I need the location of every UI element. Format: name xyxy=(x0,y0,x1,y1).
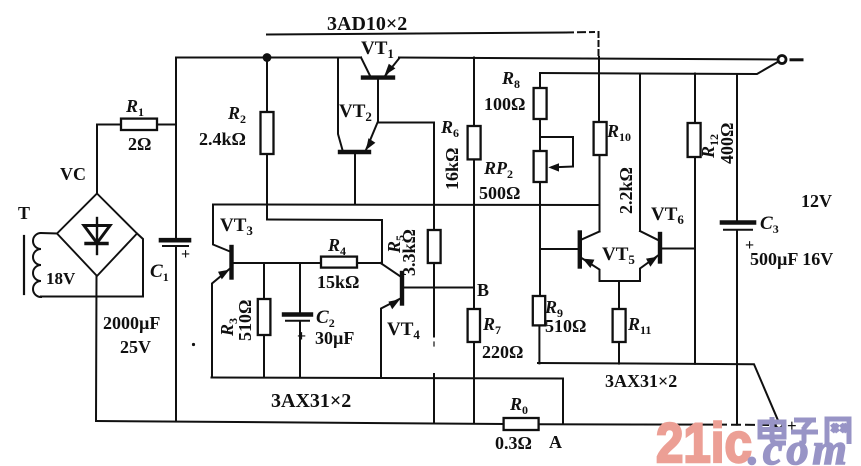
label C2 value xyxy=(297,307,354,348)
svg-text:500µF 16V: 500µF 16V xyxy=(750,249,833,269)
resistor R2 xyxy=(261,112,274,154)
svg-text:30µF: 30µF xyxy=(315,328,354,348)
label R1 value xyxy=(125,96,151,154)
transistor VT6 xyxy=(640,74,695,282)
svg-text:21ic: 21ic xyxy=(656,412,752,466)
resistor R11 xyxy=(613,309,626,342)
wire rail2 right of R0 with dashed end xyxy=(539,423,773,426)
svg-text:15kΩ: 15kΩ xyxy=(317,272,359,292)
potentiometer RP2 with wiper xyxy=(534,137,573,182)
resistor R1 xyxy=(121,119,176,130)
rectifier bridge VC (diamond) xyxy=(57,194,137,277)
resistor R11 column xyxy=(618,281,620,364)
wire rail A (unregulated top, dashed right end) xyxy=(267,32,599,56)
svg-text:220Ω: 220Ω xyxy=(482,342,523,362)
svg-text:VC: VC xyxy=(60,164,86,184)
svg-text:2000µF: 2000µF xyxy=(103,313,160,333)
wire R6/R7 column xyxy=(473,58,475,424)
label R7 value xyxy=(482,314,523,362)
wire rail C (output minus line from R8 top) xyxy=(540,62,779,75)
svg-text:2.4kΩ: 2.4kΩ xyxy=(199,129,246,149)
wire bridge right vertex down/left to transformer bottom xyxy=(137,234,143,297)
svg-text:3AX31×2: 3AX31×2 xyxy=(271,390,351,412)
label R10 value (rotated) xyxy=(606,121,636,214)
label C1 value xyxy=(103,246,190,357)
wire bridge bottom vertex down to rail2 xyxy=(95,276,98,421)
capacitor C3 xyxy=(722,223,754,230)
transistor VT3 (amp) xyxy=(212,205,321,378)
label R4 value xyxy=(317,235,359,292)
resistor R10 xyxy=(594,122,607,155)
watermark 21ic xyxy=(656,412,752,466)
resistor R0 xyxy=(504,418,539,430)
wire R10 column (rail A down through R10 to line1 / VT5 collector) xyxy=(598,57,601,232)
capacitor C3 column xyxy=(736,74,738,425)
svg-text:T: T xyxy=(18,203,30,223)
capacitor C2 xyxy=(284,315,311,321)
wire rail B left (collector side) xyxy=(176,57,361,59)
resistor R7 xyxy=(468,309,480,342)
svg-text:2.2kΩ: 2.2kΩ xyxy=(616,167,636,214)
svg-text:400Ω: 400Ω xyxy=(717,123,737,164)
svg-text:100Ω: 100Ω xyxy=(484,94,525,114)
svg-text:3.3kΩ: 3.3kΩ xyxy=(399,229,419,276)
resistor R6 xyxy=(468,126,481,159)
transistor VT1 (series pass) xyxy=(361,58,434,123)
capacitor C1 column xyxy=(175,58,177,422)
wire R2 column and line2 to VT4 collector xyxy=(267,58,382,263)
wire R5 column (VT1 base node down to rail2, with scan gap) xyxy=(433,123,435,424)
transistor VT4 xyxy=(381,263,475,378)
capacitor C1 xyxy=(161,240,189,246)
resistor R4 xyxy=(321,257,381,268)
wire rail B right (to minus terminal) xyxy=(399,58,778,60)
svg-text:+: + xyxy=(181,246,190,263)
wire rail2 bottom return (left of R0) xyxy=(96,421,504,424)
svg-text:18V: 18V xyxy=(46,269,76,288)
svg-text:3AX31×2: 3AX31×2 xyxy=(605,371,677,391)
transistor VT2 (driver) xyxy=(338,58,378,205)
label RP2 value xyxy=(479,158,520,203)
capacitor C2 column xyxy=(299,263,301,378)
resistor R12 xyxy=(688,123,701,157)
node plus output terminal xyxy=(775,421,782,428)
wire emitter rail of VT5/VT6 group to plus output (diagonal) xyxy=(538,363,779,422)
label R3 value (rotated) xyxy=(217,300,255,341)
label R0 value xyxy=(495,394,532,453)
node minus output terminal xyxy=(778,56,802,64)
svg-text:3AD10×2: 3AD10×2 xyxy=(327,13,407,35)
wire line1 (VT2 base bus) xyxy=(213,204,600,207)
svg-text:510Ω: 510Ω xyxy=(545,316,586,336)
svg-text:25V: 25V xyxy=(120,337,151,357)
resistor R8 xyxy=(534,88,547,119)
label R12 value (rotated) xyxy=(698,123,737,164)
label R8 value xyxy=(484,68,525,114)
svg-text:0.3Ω: 0.3Ω xyxy=(495,433,532,453)
svg-text:510Ω: 510Ω xyxy=(235,300,255,341)
transformer T secondary xyxy=(24,233,143,297)
label R5 value (rotated) xyxy=(384,229,419,276)
resistor R3 column xyxy=(263,263,265,378)
svg-text:500Ω: 500Ω xyxy=(479,183,520,203)
transistor VT5 xyxy=(540,232,640,282)
label R9 value xyxy=(544,297,586,336)
node junction dot rail B / R2 xyxy=(263,53,272,62)
resistor R9 xyxy=(533,296,545,325)
resistor R3 xyxy=(258,299,271,335)
resistor R12 column xyxy=(694,74,696,364)
wire R8/RP2/R9 sampling chain xyxy=(538,73,541,363)
svg-text:+: + xyxy=(297,328,306,345)
svg-text:A: A xyxy=(549,432,562,452)
label R2 value xyxy=(199,103,246,149)
svg-text:12V: 12V xyxy=(801,191,832,211)
label C3 value xyxy=(745,213,833,269)
watermark CJK dianziwang xyxy=(760,417,849,444)
label R6 value xyxy=(440,117,462,190)
resistor R5 xyxy=(428,230,441,263)
svg-text:16kΩ: 16kΩ xyxy=(442,148,462,190)
node stray scan dot xyxy=(192,343,195,346)
wire bridge top vertex to R1 xyxy=(97,125,121,194)
svg-text:B: B xyxy=(477,280,489,300)
svg-text:2Ω: 2Ω xyxy=(128,134,151,154)
wire rail1 ground bus of VT3/VT4 stage xyxy=(212,378,564,425)
